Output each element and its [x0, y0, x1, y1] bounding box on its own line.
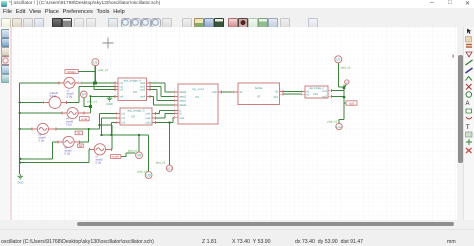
- buffer U7: [238, 83, 280, 105]
- svg-text:out4: out4: [140, 94, 146, 98]
- svg-text:in3: in3: [121, 121, 125, 125]
- svg-text:U1: U1: [336, 58, 340, 62]
- plot U9: [145, 172, 152, 179]
- wire V6 left loop: [20, 142, 57, 159]
- voltage source V5: [37, 123, 48, 134]
- pin V1 right: [75, 81, 82, 84]
- wire rail to V1: [20, 82, 59, 84]
- svg-text:U7: U7: [257, 95, 261, 99]
- wire U5 in1 riser: [99, 114, 116, 129]
- wire small plot stub: [344, 84, 346, 88]
- pin V5 right: [49, 127, 57, 130]
- svg-text:S0: S0: [79, 144, 83, 148]
- junction rail loopB: [19, 161, 21, 163]
- value text V1: [67, 89, 75, 99]
- wire U5 in3 riser: [111, 123, 116, 136]
- pin V5 left: [32, 127, 38, 130]
- svg-text:U2: U2: [195, 95, 199, 99]
- dac_bridge U10: [305, 86, 328, 99]
- svg-text:plot_v1: plot_v1: [98, 68, 108, 72]
- wire node to plot U12: [339, 97, 344, 123]
- pins dac right: [328, 89, 332, 98]
- wire V8 to adc in2: [67, 86, 114, 102]
- wire drop to plot U9: [148, 135, 150, 172]
- ground GND1: [17, 174, 23, 184]
- pins dac left: [301, 90, 305, 96]
- junction rail V4: [19, 112, 21, 114]
- voltage source V1: [64, 77, 75, 88]
- svg-text:out3: out3: [140, 88, 146, 92]
- wire V5 to U5 riser: [56, 128, 99, 130]
- wire V4 node riser: [90, 96, 92, 113]
- sheet border: [10, 27, 12, 220]
- svg-text:plot_v1: plot_v1: [87, 99, 97, 103]
- wire adc U6 out2 to U2 data2: [151, 86, 175, 96]
- wire junction to V7: [99, 125, 112, 149]
- pins adc U5 left: [116, 114, 120, 123]
- wire U3 plot drop: [94, 66, 96, 83]
- wire output node vertical: [343, 85, 345, 98]
- svg-text:plot_v1: plot_v1: [328, 120, 338, 124]
- svg-text:out2: out2: [322, 96, 327, 99]
- svg-text:out1: out1: [145, 112, 151, 116]
- pins adc U6 right: [147, 83, 151, 97]
- svg-text:out1: out1: [322, 90, 327, 93]
- cursor crosshair: [103, 38, 114, 49]
- svg-text:in2: in2: [121, 116, 125, 120]
- value text V8: [50, 91, 59, 98]
- global label S1: [75, 131, 82, 135]
- plot U1: [335, 56, 342, 63]
- svg-text:data0: data0: [179, 103, 186, 107]
- pin ticks U6: [115, 81, 150, 98]
- svg-text:in3: in3: [119, 88, 123, 92]
- pins U2 left: [174, 92, 178, 118]
- svg-text:U9: U9: [147, 173, 151, 177]
- junction rail loopA: [19, 158, 21, 160]
- value text V7: [96, 155, 104, 165]
- pin V4 right: [78, 112, 90, 115]
- plot U8: [136, 152, 143, 159]
- junction rail V8: [19, 101, 21, 103]
- svg-text:data2: data2: [179, 95, 186, 99]
- plot U11: [166, 165, 172, 171]
- pin U2 out0: [218, 91, 222, 94]
- svg-text:5 1k): 5 1k): [66, 123, 72, 127]
- wire plot bus bottom: [102, 134, 149, 136]
- plot U4: [81, 91, 88, 98]
- junction out node top: [343, 87, 346, 90]
- wire dac out2 to node: [332, 96, 344, 98]
- svg-text:GND: GND: [17, 180, 23, 184]
- pins adc U5 right: [152, 114, 156, 123]
- svg-text:out0: out0: [211, 90, 217, 94]
- plot U12: [336, 123, 342, 129]
- adc_bridge U6: [118, 78, 147, 101]
- svg-text:5 1k): 5 1k): [96, 161, 102, 165]
- svg-text:dac_bridge_2: dac_bridge_2: [309, 87, 324, 90]
- wire V6 riser to V5 net: [80, 129, 89, 142]
- junction U5 out3 drop: [168, 121, 170, 123]
- svg-text:U3: U3: [93, 61, 97, 65]
- svg-text:plot_v1: plot_v1: [341, 66, 351, 70]
- svg-text:out1: out1: [140, 81, 146, 85]
- svg-text:in4: in4: [119, 94, 123, 98]
- wire rail to V5: [20, 128, 32, 130]
- svg-text:5 1k): 5 1k): [67, 95, 73, 99]
- global label U8node: [111, 155, 121, 159]
- svg-text:U8: U8: [137, 154, 141, 158]
- wire node to adc in4: [91, 95, 115, 97]
- wire buffer to dac d1: [284, 90, 302, 92]
- wire rail to V4: [20, 112, 62, 114]
- pin ticks U5: [117, 112, 156, 124]
- junction V5 net V6: [88, 128, 90, 130]
- pin V7 right: [106, 148, 113, 151]
- pin V1 left: [58, 81, 64, 84]
- pin V6 left: [58, 140, 64, 143]
- pin buffer in: [233, 90, 239, 93]
- junction bus U8: [138, 134, 140, 136]
- pin V8 right: [61, 101, 67, 104]
- wire node to adc in3: [94, 83, 114, 90]
- svg-text:in2: in2: [306, 94, 310, 96]
- wire U5 out1 to U2 i1: [156, 110, 174, 113]
- svg-text:a1: a1: [239, 90, 242, 94]
- svg-text:U4: U4: [82, 93, 86, 97]
- svg-text:eval: eval: [82, 117, 88, 121]
- svg-text:d1: d1: [275, 89, 278, 93]
- value text V6: [65, 146, 73, 156]
- global label S0: [78, 144, 84, 148]
- wire V7 left loop: [20, 149, 89, 162]
- svg-text:data1: data1: [179, 99, 186, 103]
- pin V7 left: [89, 148, 94, 151]
- junction U5 in1: [98, 124, 100, 126]
- svg-text:node1: node1: [112, 155, 120, 159]
- wire rail to V8: [20, 102, 44, 104]
- svg-text:buffer: buffer: [255, 86, 263, 90]
- pin V6 right: [74, 140, 80, 143]
- wire U4 plot drop: [84, 98, 91, 107]
- wire label box to plot U8: [121, 153, 136, 156]
- svg-text:U6: U6: [133, 90, 137, 94]
- junction bus in3: [110, 134, 112, 136]
- right toolbar icons: [466, 29, 473, 154]
- svg-text:A: A: [466, 101, 470, 107]
- junction node square V1-adc: [93, 81, 97, 84]
- value text V4: [66, 117, 74, 127]
- adc_bridge U5: [120, 108, 152, 125]
- pin V4 left: [61, 112, 67, 115]
- svg-text:en0: en0: [179, 116, 184, 120]
- wire out label stub: [344, 102, 346, 104]
- svg-text:U5: U5: [131, 115, 135, 119]
- svg-text:S1: S1: [77, 131, 81, 135]
- svg-text:adc_bridge_3: adc_bridge_3: [128, 109, 145, 113]
- voltage source V8 (plain): [49, 97, 61, 109]
- voltage source V4: [67, 107, 78, 118]
- svg-text:in1: in1: [119, 81, 123, 85]
- svg-text:SINE1: SINE1: [67, 70, 76, 74]
- svg-text:data3: data3: [179, 90, 186, 94]
- wire adc U6 out3 to U2 data1: [151, 90, 175, 101]
- svg-text:U11: U11: [167, 167, 173, 171]
- wire left GND rail: [19, 83, 21, 174]
- junction out node bottom: [343, 96, 346, 99]
- svg-text:out3: out3: [145, 121, 151, 125]
- svg-text:adc_bridge_4: adc_bridge_4: [124, 79, 141, 83]
- junction bus in2: [100, 134, 102, 136]
- svg-text:plot_v1: plot_v1: [138, 169, 148, 173]
- pin V8 left: [43, 101, 49, 104]
- junction rail V5: [19, 128, 21, 130]
- svg-text:plot_v1: plot_v1: [128, 149, 138, 153]
- wire clk label to node: [78, 71, 95, 73]
- wire drop to plot U11: [169, 123, 171, 166]
- svg-text:U12: U12: [336, 125, 342, 129]
- svg-text:GND: GND: [106, 102, 112, 106]
- pins adc U6 left: [114, 83, 118, 97]
- global label eval: [80, 117, 90, 121]
- svg-text:plot_v1: plot_v1: [156, 161, 166, 165]
- svg-text:out2: out2: [145, 116, 151, 120]
- junction U4 drop: [89, 105, 92, 108]
- voltage source V7: [94, 144, 105, 155]
- svg-text:i0: i0: [179, 112, 182, 116]
- svg-text:T: T: [466, 124, 470, 131]
- svg-text:U10: U10: [313, 92, 318, 96]
- junction V4 riser top: [89, 95, 91, 97]
- wire drop to plot U8: [138, 135, 140, 152]
- wire adc U6 out4 to U2 data0: [151, 96, 175, 105]
- plot U3: [92, 59, 99, 66]
- global label clk: [65, 70, 78, 74]
- wire V1 to adc in1: [82, 82, 115, 84]
- value text V5: [39, 133, 47, 143]
- svg-text:5 1m): 5 1m): [50, 94, 57, 98]
- wire U5 out2 to U2 i0: [156, 114, 174, 119]
- IC U2 my_vco: [178, 84, 218, 124]
- svg-text:in1: in1: [306, 91, 310, 93]
- svg-text:clk1: clk1: [273, 95, 278, 99]
- wire adc U6 out1 to U2 data3: [151, 83, 175, 92]
- ground GND2: [106, 96, 112, 106]
- pin ticks U2: [174, 91, 176, 120]
- plot U13 small: [345, 80, 349, 84]
- wire U5 out3 to U2 en0: [156, 118, 174, 123]
- svg-text:5 1k): 5 1k): [39, 139, 45, 143]
- wire U1 plot drop: [338, 63, 344, 87]
- voltage source V6: [63, 136, 74, 147]
- svg-text:out: out: [349, 101, 354, 105]
- wire buffer to dac d2: [284, 93, 302, 95]
- svg-text:my_vco1: my_vco1: [192, 87, 204, 91]
- sheet border mark right: [452, 55, 454, 58]
- wire dac out1 to node: [332, 90, 344, 92]
- pins buffer out: [280, 90, 284, 96]
- wire U2 out0 to buffer: [222, 91, 233, 93]
- wire U5 in2 riser: [102, 118, 116, 135]
- svg-text:5 1k): 5 1k): [65, 152, 71, 156]
- global label out: [346, 101, 357, 106]
- svg-text:in1: in1: [121, 112, 125, 116]
